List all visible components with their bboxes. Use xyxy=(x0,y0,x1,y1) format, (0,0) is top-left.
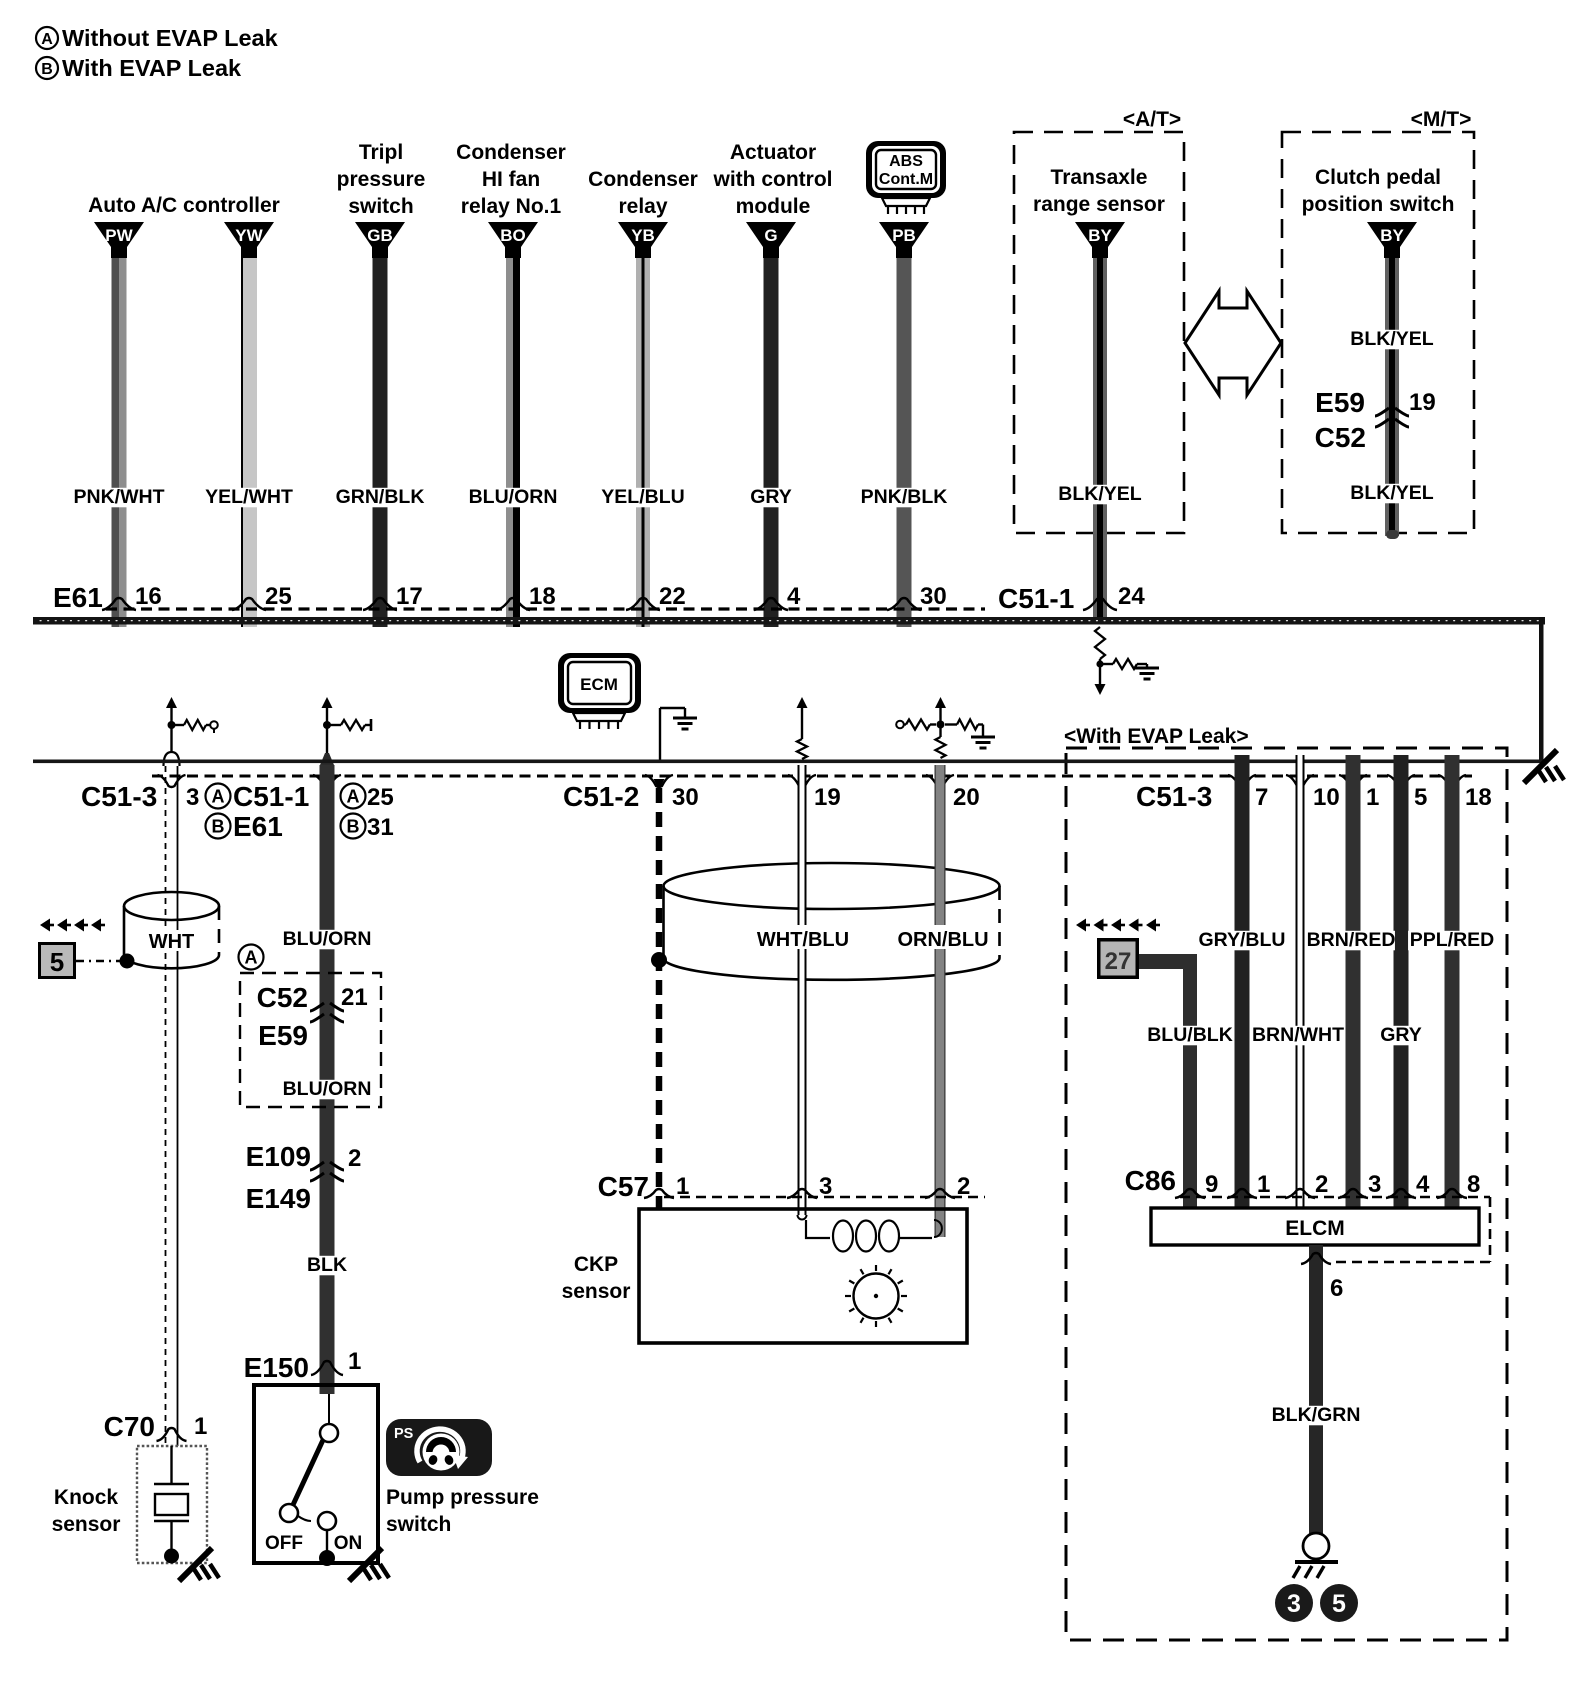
wire PNK/BLK from PB xyxy=(897,256,912,627)
vee + pin A25 B31 xyxy=(313,775,394,841)
connector triangle YB xyxy=(618,222,668,258)
label Clutch pedal position switch xyxy=(1302,166,1455,216)
svg-text:BO: BO xyxy=(500,226,526,245)
svg-text:20: 20 xyxy=(953,784,980,811)
svg-text:A: A xyxy=(245,947,258,967)
svg-text:9: 9 xyxy=(1205,1171,1218,1198)
ABS control module icon xyxy=(866,141,946,214)
svg-text:OFF: OFF xyxy=(265,1533,303,1554)
arrows to 5 xyxy=(40,919,105,932)
junction dot on C51-2 wire xyxy=(651,952,667,968)
caret C86 pin 9 xyxy=(1175,1171,1218,1198)
svg-text:PPL/RED: PPL/RED xyxy=(1410,929,1495,951)
svg-text:E149: E149 xyxy=(246,1183,311,1214)
label BLK/YEL (M/T) upper xyxy=(1348,328,1436,350)
svg-text:A: A xyxy=(41,31,53,48)
svg-text:1: 1 xyxy=(348,1348,361,1375)
label PNK/BLK xyxy=(860,486,948,508)
svg-text:C51-2: C51-2 xyxy=(563,781,639,812)
svg-text:1: 1 xyxy=(1257,1171,1270,1198)
knock sensor box xyxy=(137,1446,207,1563)
svg-text:PNK/WHT: PNK/WHT xyxy=(74,486,165,508)
CKP shield cylinder xyxy=(664,863,1000,980)
svg-text:BLK/YEL: BLK/YEL xyxy=(1350,328,1434,350)
svg-text:1: 1 xyxy=(676,1173,689,1200)
label YEL/WHT xyxy=(205,486,293,508)
svg-text:E109: E109 xyxy=(246,1141,311,1172)
svg-text:ABS: ABS xyxy=(889,153,923,170)
pin 4 xyxy=(787,583,801,610)
pin 25 xyxy=(265,583,292,610)
svg-text:6: 6 xyxy=(1330,1275,1343,1302)
svg-text:GRN/BLK: GRN/BLK xyxy=(336,486,425,508)
svg-text:25: 25 xyxy=(265,583,292,610)
wire GRN/BLK from GB xyxy=(373,256,388,627)
svg-text:GB: GB xyxy=(367,226,393,245)
svg-text:GRY: GRY xyxy=(1380,1024,1422,1046)
svg-text:4: 4 xyxy=(787,583,801,610)
vee + pin 3 xyxy=(158,775,200,811)
svg-text:5: 5 xyxy=(1414,784,1427,811)
svg-text:16: 16 xyxy=(135,583,162,610)
svg-text:BY: BY xyxy=(1380,226,1404,245)
svg-text:2: 2 xyxy=(348,1145,361,1172)
svg-text:BLK/YEL: BLK/YEL xyxy=(1058,483,1142,505)
svg-text:18: 18 xyxy=(529,583,556,610)
ground E150 xyxy=(349,1548,389,1581)
svg-text:BLU/ORN: BLU/ORN xyxy=(283,1078,372,1100)
svg-text:Transaxle: Transaxle xyxy=(1051,166,1148,189)
wire PNK/WHT from PW xyxy=(112,256,127,627)
label Condenser relay xyxy=(588,168,698,218)
svg-text:30: 30 xyxy=(672,784,699,811)
svg-text:ON: ON xyxy=(334,1533,363,1554)
svg-text:5: 5 xyxy=(50,947,64,977)
label BLU/ORN xyxy=(469,486,558,508)
svg-text:Condenser: Condenser xyxy=(588,168,698,191)
M/T box xyxy=(1282,132,1474,533)
connector triangle PB xyxy=(879,222,929,258)
svg-text:A: A xyxy=(212,786,225,806)
svg-text:A: A xyxy=(347,786,360,806)
connector triangle BY (A/T) xyxy=(1075,222,1125,258)
connector triangle G xyxy=(746,222,796,258)
label CKP sensor xyxy=(562,1253,631,1303)
svg-text:2: 2 xyxy=(957,1173,970,1200)
pin 24 xyxy=(1118,583,1145,610)
svg-text:B: B xyxy=(41,61,53,78)
svg-text:BLU/BLK: BLU/BLK xyxy=(1147,1024,1233,1046)
legend A: Without EVAP Leak xyxy=(36,25,279,51)
svg-text:ECM: ECM xyxy=(580,675,618,694)
svg-text:8: 8 xyxy=(1467,1171,1480,1198)
label WHT/BLU xyxy=(757,925,849,951)
label Condenser HI fan relay No.1 xyxy=(456,141,566,218)
svg-text:B: B xyxy=(212,816,225,836)
svg-text:30: 30 xyxy=(920,583,947,610)
svg-text:5: 5 xyxy=(1332,1590,1346,1618)
svg-text:B: B xyxy=(347,816,360,836)
svg-text:With EVAP Leak: With EVAP Leak xyxy=(62,55,242,81)
label GRY (EVAP) xyxy=(1380,1024,1422,1046)
svg-text:BLK/YEL: BLK/YEL xyxy=(1350,482,1434,504)
EVAP wire x1242 xyxy=(1235,755,1250,1217)
svg-text:position switch: position switch xyxy=(1302,193,1455,216)
caret C57 pin 2 xyxy=(925,1173,970,1200)
CKP coil xyxy=(806,1220,942,1252)
svg-text:27: 27 xyxy=(1105,948,1132,975)
noise filter below C51-1 24 xyxy=(1095,627,1160,695)
label GRN/BLK xyxy=(336,486,425,508)
label GRY/BLU xyxy=(1198,929,1286,951)
svg-text:E150: E150 xyxy=(244,1352,309,1383)
svg-text:Pump pressure: Pump pressure xyxy=(386,1486,539,1509)
CKP reluctor gear xyxy=(845,1265,907,1327)
shield symbol knock wire xyxy=(166,697,218,753)
svg-text:1: 1 xyxy=(194,1413,207,1440)
svg-text:C51-1: C51-1 xyxy=(998,583,1074,614)
box 5 xyxy=(38,942,76,979)
svg-text:21: 21 xyxy=(341,984,368,1011)
dashed connector line E61 xyxy=(106,607,985,610)
svg-text:BLK: BLK xyxy=(307,1254,347,1276)
connector E109/E149 pin 2 xyxy=(246,1141,362,1214)
wire BLK/YEL (M/T) xyxy=(1385,256,1399,539)
caret C86 pin 3 xyxy=(1338,1171,1381,1198)
label PNK/WHT xyxy=(74,486,165,508)
svg-text:YEL/BLU: YEL/BLU xyxy=(601,486,684,508)
caret C86 pin 4 xyxy=(1386,1171,1430,1198)
svg-text:22: 22 xyxy=(659,583,686,610)
wire BLU/ORN to E150 xyxy=(320,765,335,1394)
svg-text:19: 19 xyxy=(814,784,841,811)
ELCM ground xyxy=(1293,1533,1338,1578)
arrows to 27 xyxy=(1076,919,1160,932)
connector triangle BY (M/T) xyxy=(1367,222,1417,258)
ground right of ECM xyxy=(660,708,697,760)
label C51-3 xyxy=(78,780,164,812)
wire BLU/ORN from BO xyxy=(506,256,520,627)
svg-text:BLU/ORN: BLU/ORN xyxy=(469,486,558,508)
bus right drop wire xyxy=(1539,617,1544,763)
svg-text:<With EVAP Leak>: <With EVAP Leak> xyxy=(1064,725,1249,748)
caret C86 pin 1 xyxy=(1227,1171,1270,1198)
vee + pin 30 (C51-2) xyxy=(645,775,699,811)
caret E61 pin 25 xyxy=(232,598,266,610)
label BLK/YEL (M/T) lower xyxy=(1348,482,1436,504)
caret E61 pin 4 xyxy=(754,598,788,610)
shield symbol wire 20 xyxy=(896,697,995,758)
svg-text:C51-3: C51-3 xyxy=(81,781,157,812)
wire YEL/BLU from YB xyxy=(636,256,650,627)
wire YEL/WHT from YW xyxy=(241,256,257,627)
dashed box C52/E59 xyxy=(240,973,381,1107)
caret E61 pin 18 xyxy=(496,598,530,610)
connector E150 pin 1 xyxy=(244,1348,362,1383)
svg-text:WHT/BLU: WHT/BLU xyxy=(757,929,849,951)
bus2 right ground hatch xyxy=(1524,750,1564,783)
wire GRY from G xyxy=(764,256,779,627)
vee + pin 7 (EVAP) xyxy=(1228,775,1268,811)
label GRY xyxy=(750,486,792,508)
vee + pin 19 xyxy=(788,775,841,811)
EVAP wire x1300 xyxy=(1296,755,1305,1213)
svg-text:sensor: sensor xyxy=(562,1280,631,1303)
label Actuator with control module xyxy=(713,141,833,218)
svg-text:BY: BY xyxy=(1088,226,1112,245)
svg-text:WHT: WHT xyxy=(149,931,195,953)
label BLU/ORN lower xyxy=(283,1078,372,1100)
label C51-1 (bus1) xyxy=(998,583,1074,614)
svg-text:Without EVAP Leak: Without EVAP Leak xyxy=(62,25,279,51)
label E61 xyxy=(53,582,103,613)
svg-text:C70: C70 xyxy=(104,1411,155,1442)
hop over bus2 knock wire xyxy=(164,752,180,766)
svg-text:3: 3 xyxy=(1287,1590,1301,1618)
svg-text:BRN/WHT: BRN/WHT xyxy=(1252,1024,1344,1046)
svg-text:PS: PS xyxy=(394,1426,414,1442)
svg-text:<M/T>: <M/T> xyxy=(1411,108,1472,131)
svg-text:switch: switch xyxy=(348,195,413,218)
ground knock sensor xyxy=(179,1548,219,1581)
label BLU/ORN upper xyxy=(283,928,372,950)
svg-text:C51-3: C51-3 xyxy=(1136,781,1212,812)
bus E61/C51-1 xyxy=(33,617,1545,625)
svg-text:BLU/ORN: BLU/ORN xyxy=(283,928,372,950)
svg-text:25: 25 xyxy=(367,784,394,811)
label PPL/RED xyxy=(1408,929,1496,951)
svg-text:Tripl: Tripl xyxy=(359,141,403,164)
svg-text:PB: PB xyxy=(892,226,916,245)
shield symbol BLU/ORN wire xyxy=(320,697,371,765)
label C57 xyxy=(598,1171,649,1202)
svg-text:ELCM: ELCM xyxy=(1285,1217,1345,1240)
svg-text:18: 18 xyxy=(1465,784,1492,811)
svg-text:GRY/BLU: GRY/BLU xyxy=(1198,929,1285,951)
svg-text:E61: E61 xyxy=(53,582,103,613)
svg-text:sensor: sensor xyxy=(52,1513,121,1536)
caret C51-1 pin 24 xyxy=(1083,598,1117,610)
ELCM box xyxy=(1151,1208,1479,1245)
knock shield wires xyxy=(166,766,178,1446)
svg-text:range sensor: range sensor xyxy=(1033,193,1165,216)
vee + pin 20 xyxy=(926,775,980,811)
svg-text:YEL/WHT: YEL/WHT xyxy=(205,486,293,508)
vee + pin 10 (EVAP) xyxy=(1286,775,1340,811)
svg-text:GRY: GRY xyxy=(750,486,792,508)
label BLK/GRN xyxy=(1272,1404,1361,1426)
label Tripl pressure switch xyxy=(337,141,426,218)
label M/T xyxy=(1394,104,1474,131)
ELCM output wire BLK/GRN xyxy=(1309,1245,1323,1534)
svg-text:ORN/BLU: ORN/BLU xyxy=(897,929,988,951)
svg-text:3: 3 xyxy=(1368,1171,1381,1198)
wire C51-2 30 dashed xyxy=(654,779,665,1209)
connector triangle YW xyxy=(224,222,274,258)
label YEL/BLU xyxy=(599,486,687,508)
label A/T xyxy=(1106,104,1184,131)
switch box E150 xyxy=(254,1385,378,1563)
wire WHT/BLU xyxy=(798,765,807,1220)
label BLK/YEL (A/T) xyxy=(1056,483,1144,505)
EVAP wire x1452 xyxy=(1445,755,1460,1217)
svg-text:pressure: pressure xyxy=(337,168,426,191)
circled 5 xyxy=(1320,1584,1358,1622)
shield symbol wire 19 xyxy=(797,697,808,759)
pin 18 xyxy=(529,583,556,610)
svg-text:YB: YB xyxy=(631,226,655,245)
caret C57 pin 3 xyxy=(787,1173,832,1200)
svg-text:19: 19 xyxy=(1409,389,1436,416)
svg-text:4: 4 xyxy=(1416,1171,1430,1198)
svg-text:1: 1 xyxy=(1366,784,1379,811)
svg-text:G: G xyxy=(764,226,777,245)
circle A (C52 box) xyxy=(239,945,264,970)
svg-text:Clutch pedal: Clutch pedal xyxy=(1315,166,1441,189)
caret E61 pin 22 xyxy=(626,598,660,610)
label A C51-1 / B E61 xyxy=(202,780,318,842)
A/T box xyxy=(1014,132,1184,533)
svg-text:BLK/GRN: BLK/GRN xyxy=(1272,1404,1361,1426)
EVAP dashed box xyxy=(1066,748,1507,1640)
ECM icon xyxy=(558,653,641,729)
svg-text:Condenser: Condenser xyxy=(456,141,566,164)
label Auto A/C controller xyxy=(88,194,280,217)
label Transaxle range sensor xyxy=(1033,166,1165,216)
label C86 xyxy=(1125,1165,1176,1196)
EVAP wire x1353 xyxy=(1346,755,1361,1217)
svg-text:C52: C52 xyxy=(257,982,308,1013)
svg-text:PNK/BLK: PNK/BLK xyxy=(861,486,948,508)
svg-text:with control: with control xyxy=(713,168,833,191)
svg-text:relay: relay xyxy=(618,195,667,218)
svg-text:C86: C86 xyxy=(1125,1165,1176,1196)
PS pump icon xyxy=(386,1419,492,1476)
connector C52/E59 pin 21 xyxy=(257,982,368,1051)
EVAP wire x1401 xyxy=(1394,755,1409,1217)
svg-text:2: 2 xyxy=(1315,1171,1328,1198)
label BLU/BLK xyxy=(1146,1024,1234,1046)
double arrow A/T-M/T xyxy=(1185,291,1281,395)
svg-text:relay No.1: relay No.1 xyxy=(461,195,562,218)
svg-text:E61: E61 xyxy=(233,811,283,842)
caret C57 pin 1 xyxy=(644,1173,689,1200)
legend B: With EVAP Leak xyxy=(36,55,242,81)
connector triangle PW xyxy=(94,222,144,258)
svg-text:C57: C57 xyxy=(598,1171,649,1202)
label ORN/BLU xyxy=(897,925,989,951)
label Knock sensor xyxy=(52,1486,121,1536)
label BRN/WHT xyxy=(1252,1024,1344,1046)
pin 30 xyxy=(920,583,947,610)
dash-dot link to shield xyxy=(76,954,135,969)
caret E61 pin 30 xyxy=(887,598,921,610)
svg-text:BRN/RED: BRN/RED xyxy=(1307,929,1396,951)
connector C70 pin 1 xyxy=(104,1411,208,1442)
connector E59/C52 on M/T wire xyxy=(1315,387,1436,453)
wire BLK/YEL (A/T) xyxy=(1093,256,1107,618)
pin 16 xyxy=(135,583,162,610)
svg-text:HI fan: HI fan xyxy=(482,168,540,191)
svg-text:E59: E59 xyxy=(1315,387,1365,418)
caret E61 pin 17 xyxy=(363,598,397,610)
svg-text:31: 31 xyxy=(367,814,394,841)
svg-text:<A/T>: <A/T> xyxy=(1123,108,1181,131)
vee + pin 5 (EVAP) xyxy=(1387,775,1427,811)
C86 dashed line xyxy=(1180,1197,1490,1262)
label Pump pressure switch xyxy=(386,1486,539,1536)
label C51-3 (EVAP) xyxy=(1136,781,1212,812)
svg-text:YW: YW xyxy=(235,226,263,245)
switch E150 xyxy=(265,1394,362,1566)
knock sensor element xyxy=(154,1446,189,1564)
svg-text:17: 17 xyxy=(396,583,423,610)
circled 3 xyxy=(1275,1584,1313,1622)
connector triangle GB xyxy=(355,222,405,258)
wire ORN/BLU xyxy=(935,765,946,1237)
svg-text:Knock: Knock xyxy=(54,1486,119,1509)
svg-text:3: 3 xyxy=(819,1173,832,1200)
wire from 27 to ELCM xyxy=(1139,954,1197,1217)
svg-text:Cont.M: Cont.M xyxy=(879,171,933,188)
svg-text:switch: switch xyxy=(386,1513,451,1536)
connector triangle BO xyxy=(488,222,538,258)
vee + pin 18 (EVAP) xyxy=(1438,775,1492,811)
box 27 xyxy=(1097,938,1139,979)
label BRN/RED xyxy=(1307,929,1396,951)
svg-text:C52: C52 xyxy=(1315,422,1366,453)
CKP sensor box xyxy=(639,1209,967,1343)
caret C86 pin 2 xyxy=(1285,1171,1328,1198)
svg-text:CKP: CKP xyxy=(574,1253,618,1276)
svg-text:3: 3 xyxy=(186,784,199,811)
label C51-2 xyxy=(560,780,652,812)
svg-text:PW: PW xyxy=(105,226,133,245)
svg-text:10: 10 xyxy=(1313,784,1340,811)
svg-text:C51-1: C51-1 xyxy=(233,781,309,812)
svg-text:E59: E59 xyxy=(258,1020,308,1051)
pin 17 xyxy=(396,583,423,610)
svg-text:Auto A/C controller: Auto A/C controller xyxy=(88,194,280,217)
svg-text:7: 7 xyxy=(1255,784,1268,811)
caret E61 pin 16 xyxy=(102,598,136,610)
svg-text:module: module xyxy=(736,195,811,218)
label BLK xyxy=(306,1254,347,1276)
svg-text:24: 24 xyxy=(1118,583,1145,610)
dashed line C51 row xyxy=(152,775,1472,778)
svg-text:Actuator: Actuator xyxy=(730,141,816,164)
bus C51-2/C51-3 xyxy=(33,760,1543,764)
caret pin 6 xyxy=(1301,1253,1343,1302)
label With EVAP Leak xyxy=(1064,725,1249,748)
vee + pin 1 (EVAP) xyxy=(1339,775,1379,811)
caret C86 pin 8 xyxy=(1437,1171,1480,1198)
knock shield cylinder xyxy=(124,892,219,968)
C57 dashed line xyxy=(664,1196,985,1199)
pin 22 xyxy=(659,583,686,610)
